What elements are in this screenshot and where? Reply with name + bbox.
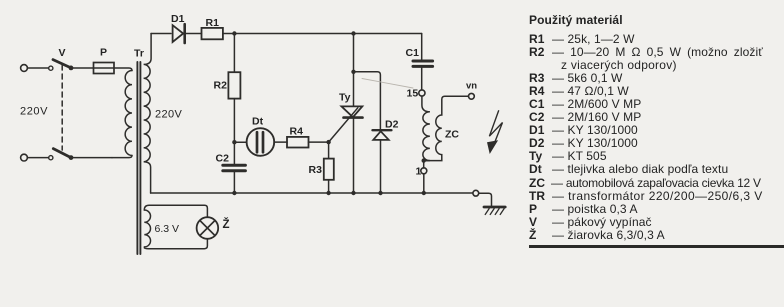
node R3 bottom	[326, 191, 330, 195]
wire D2 branch top	[354, 72, 381, 129]
node ZC bottom	[422, 158, 426, 162]
wire 6.3V top lead to lamp	[144, 205, 207, 217]
spark lightning bolt	[489, 111, 502, 146]
wire terminal 1 to rail	[423, 174, 425, 193]
resistor R3	[324, 159, 334, 180]
svg-text:220V: 220V	[155, 109, 183, 121]
svg-text:C1: C1	[406, 47, 420, 59]
svg-text:Dt: Dt	[252, 116, 264, 128]
svg-text:R3: R3	[309, 164, 323, 176]
svg-text:V: V	[59, 47, 66, 59]
terminal vn	[469, 93, 475, 99]
switch V upper lever	[53, 60, 71, 68]
svg-text:R1: R1	[206, 17, 220, 29]
wire fuse to transformer primary	[114, 68, 132, 71]
wire Dt to R4	[274, 141, 287, 143]
wire R2 to Dt node	[233, 99, 235, 164]
svg-text:Ž: Ž	[223, 218, 230, 231]
svg-text:R4: R4	[290, 126, 304, 138]
svg-text:Ty: Ty	[339, 92, 351, 104]
svg-text:C2: C2	[216, 153, 230, 165]
terminal lower-left input	[21, 154, 28, 161]
wire 6.3V bottom lead from lamp	[144, 239, 207, 249]
ignition coil ZC secondary winding	[424, 96, 469, 160]
svg-text:vn: vn	[466, 81, 477, 92]
wire R3 top	[328, 142, 330, 159]
svg-text:6.3 V: 6.3 V	[155, 223, 180, 235]
resistor R2	[228, 72, 240, 98]
node R2 top	[232, 31, 236, 35]
wire	[71, 157, 112, 159]
wire Dt left lead	[234, 141, 246, 143]
node ZC rail	[422, 191, 426, 195]
svg-text:D1: D1	[171, 13, 185, 25]
wire C2 bottom	[233, 172, 235, 193]
svg-text:D2: D2	[385, 119, 399, 131]
wire Ty anode	[353, 34, 355, 107]
switch V lower contact	[49, 156, 53, 160]
thyristor Ty	[342, 106, 363, 117]
resistor R4	[287, 137, 309, 148]
wire	[27, 157, 48, 159]
svg-text:1: 1	[416, 166, 422, 178]
faint pencil line	[362, 79, 413, 89]
diode D2	[373, 129, 392, 131]
wire ZC to terminal 1	[423, 161, 425, 168]
wire	[71, 67, 94, 69]
wire top rail secondary to D1	[151, 33, 171, 35]
transformer TR core	[136, 62, 138, 254]
transformer TR 6.3V winding	[144, 210, 150, 247]
node Ty bottom	[351, 191, 355, 195]
wire to ground	[479, 193, 492, 206]
wire primary bottom lead	[112, 155, 132, 157]
wire	[27, 67, 48, 69]
node gate junction	[326, 140, 330, 144]
lamp Z circle	[197, 217, 219, 239]
node C2 bottom	[232, 191, 236, 195]
ignition coil ZC primary winding	[422, 96, 430, 161]
node Dt junction	[232, 140, 236, 144]
wire R4 to gate node	[309, 141, 329, 143]
node D2 branch	[351, 70, 355, 74]
wire D2 bottom	[380, 140, 382, 193]
svg-text:P: P	[100, 47, 107, 59]
fuse P	[94, 63, 115, 74]
switch V upper contact	[49, 66, 53, 70]
wire top rail R1 to C1 corner	[223, 33, 422, 35]
wire D1 to R1	[186, 33, 202, 35]
transformer TR primary winding	[125, 71, 132, 156]
capacitor C1	[413, 60, 433, 63]
terminal 1	[421, 168, 427, 174]
terminal upper-left input	[21, 65, 28, 72]
terminal ground side	[473, 190, 479, 196]
wire gate to thyristor	[329, 108, 358, 142]
terminal 15	[419, 90, 425, 96]
svg-text:Tr: Tr	[134, 48, 144, 60]
wire C1 to terminal 15	[421, 68, 423, 90]
svg-text:R2: R2	[214, 80, 228, 92]
bottom rail wire	[151, 192, 473, 194]
node D2 bottom	[378, 191, 382, 195]
transformer TR secondary 220V winding	[144, 34, 152, 194]
neon lamp / diac Dt	[247, 128, 275, 156]
svg-text:15: 15	[407, 88, 419, 100]
switch V lower lever	[53, 149, 71, 158]
wire Ty cathode	[353, 119, 355, 193]
switch V mechanical link (dashed)	[61, 65, 63, 150]
node Ty top	[351, 31, 355, 35]
ground	[484, 206, 505, 209]
resistor R1	[202, 28, 223, 39]
wire C1 drop	[421, 34, 423, 60]
svg-text:220V: 220V	[20, 106, 48, 118]
svg-text:ZC: ZC	[445, 129, 459, 141]
wire R2 branch upper	[233, 34, 235, 73]
capacitor C2	[223, 164, 246, 167]
wire R3 bottom	[328, 180, 330, 193]
diode D1	[173, 25, 184, 42]
